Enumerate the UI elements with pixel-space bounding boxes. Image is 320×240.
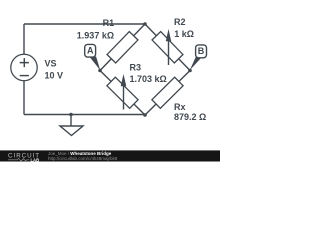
svg-text:1 kΩ: 1 kΩ: [174, 29, 194, 39]
resistor R1: [107, 32, 138, 63]
arrow of R3: [121, 74, 127, 110]
svg-text:A: A: [87, 46, 94, 56]
resistor R3 (variable): [107, 77, 138, 108]
node A flag: [85, 44, 101, 70]
svg-text:R1: R1: [103, 18, 115, 28]
resistor Rx: [152, 77, 183, 108]
svg-text:879.2 Ω: 879.2 Ω: [174, 112, 206, 122]
node B flag: [190, 45, 207, 71]
svg-text:R2: R2: [174, 17, 186, 27]
svg-text:Rx: Rx: [174, 102, 186, 112]
svg-text:R3: R3: [130, 63, 142, 73]
svg-text:LAB: LAB: [31, 157, 40, 162]
node R junction dot: [188, 69, 192, 73]
svg-text:VS: VS: [45, 58, 57, 68]
wire left upper (VS+ lead): [23, 24, 25, 54]
svg-text:10 V: 10 V: [45, 71, 64, 81]
footer logo resistor zigzag: [8, 158, 29, 161]
wire bridge edge L-G: [100, 71, 145, 116]
arrow of R2: [166, 29, 171, 65]
node L junction dot: [98, 69, 102, 73]
ground tap junction dot: [69, 113, 73, 117]
wire bottom to node G: [24, 114, 145, 116]
svg-text:http://circuitlab.com/c/4k48ma: http://circuitlab.com/c/4k48majrbk8: [48, 156, 118, 161]
ground: [60, 115, 83, 136]
node T junction dot: [143, 22, 147, 26]
resistor R2 (variable): [152, 32, 183, 63]
svg-text:1.703 kΩ: 1.703 kΩ: [130, 74, 167, 84]
wire bridge edge T-L: [100, 24, 145, 71]
canvas background: [0, 0, 220, 165]
svg-text:B: B: [198, 46, 205, 56]
wire bridge edge T-R: [145, 24, 190, 71]
wire top from VS to node T: [24, 23, 145, 25]
voltage source VS: [11, 54, 37, 80]
wire bridge edge R-G: [145, 71, 190, 116]
node G junction dot: [143, 113, 147, 117]
wire left lower (VS- lead): [23, 81, 25, 115]
footer bar: [0, 150, 220, 161]
svg-text:1.937 kΩ: 1.937 kΩ: [77, 30, 114, 40]
